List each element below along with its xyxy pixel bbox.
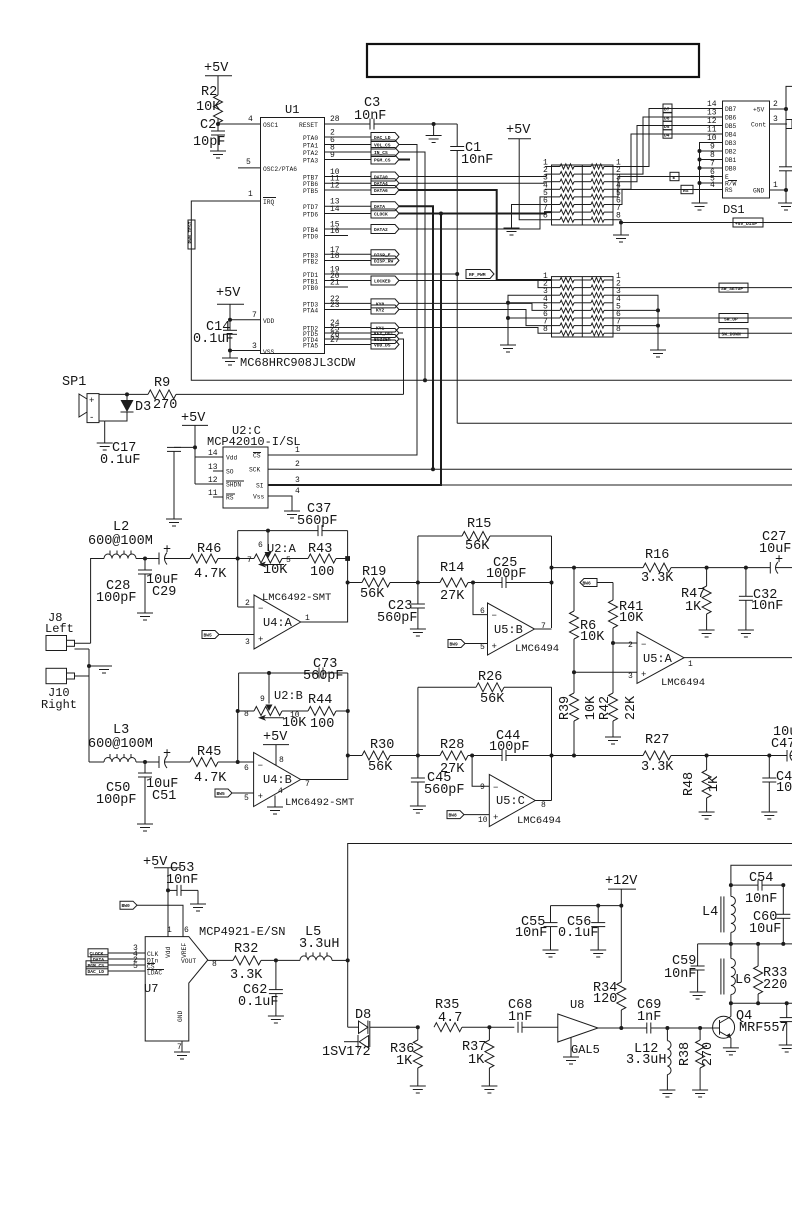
svg-text:MCP42010-I/SL: MCP42010-I/SL bbox=[207, 435, 301, 449]
flag D6 bbox=[663, 113, 672, 122]
svg-text:27K: 27K bbox=[440, 589, 465, 604]
svg-text:PTD0: PTD0 bbox=[303, 234, 318, 241]
svg-text:R9: R9 bbox=[154, 376, 170, 391]
svg-text:SI: SI bbox=[256, 483, 264, 490]
svg-text:PTA0: PTA0 bbox=[303, 135, 318, 142]
svg-text:+: + bbox=[258, 792, 263, 802]
wire mid rail bbox=[698, 943, 792, 945]
wire BUZZER down to speaker bbox=[399, 339, 404, 394]
ground resnet1 row6 bbox=[504, 205, 552, 236]
diode D3 bbox=[105, 392, 152, 421]
svg-text:7: 7 bbox=[247, 556, 252, 565]
wire to U5:C minus bbox=[472, 756, 489, 787]
wire SI pin3 bbox=[268, 484, 279, 486]
op-amp U4:B bbox=[244, 753, 354, 810]
diode D8 1SV172 varactor pair bbox=[322, 1008, 418, 1060]
wire RN1 row4 to DB4 bbox=[613, 134, 723, 189]
svg-text:6: 6 bbox=[258, 541, 263, 550]
flag VDD_DS bbox=[371, 340, 399, 349]
capacitor C29 10uF polarized bbox=[145, 543, 190, 600]
capacitor C68 1nF bbox=[508, 998, 558, 1033]
svg-text:4.7K: 4.7K bbox=[194, 771, 227, 786]
svg-text:4: 4 bbox=[248, 115, 253, 124]
wire to U5:B minus bbox=[473, 583, 488, 615]
svg-text:CLOCK: CLOCK bbox=[374, 212, 388, 218]
svg-text:+: + bbox=[258, 635, 263, 645]
node summing tap bbox=[550, 566, 554, 570]
node U5:A minus bbox=[611, 641, 615, 645]
capacitor C44 100pF bbox=[489, 729, 613, 761]
resistor R32 3.3K bbox=[208, 942, 300, 983]
node Q4 collector bbox=[729, 1001, 733, 1005]
svg-text:+5V: +5V bbox=[204, 61, 229, 76]
flag +5V_DISP bbox=[733, 218, 763, 227]
svg-text:1: 1 bbox=[688, 660, 693, 669]
svg-text:0.1uF: 0.1uF bbox=[238, 995, 279, 1010]
resistor R42 22K bbox=[598, 693, 639, 744]
flag BW6 feeding R41 bbox=[580, 579, 597, 587]
svg-text:U5:A: U5:A bbox=[643, 652, 673, 666]
resistor R16 3.3K bbox=[641, 548, 770, 586]
svg-text:560pF: 560pF bbox=[377, 611, 418, 626]
svg-text:1SV172: 1SV172 bbox=[322, 1045, 371, 1060]
svg-text:12: 12 bbox=[330, 182, 340, 191]
pin 9 PTA3 bbox=[303, 151, 371, 165]
svg-text:PTB2: PTB2 bbox=[303, 259, 318, 266]
svg-text:10K: 10K bbox=[619, 611, 644, 626]
IC U1 box bbox=[261, 118, 325, 354]
svg-text:U4:A: U4:A bbox=[263, 616, 293, 630]
svg-text:100pF: 100pF bbox=[489, 740, 530, 755]
svg-text:DB2: DB2 bbox=[725, 149, 737, 156]
power +5V resnet pullup bbox=[506, 123, 552, 220]
pin11 RS stub bbox=[213, 496, 223, 498]
wire DS1 GND pin bbox=[770, 189, 787, 191]
resistor R26 56K feedback bbox=[418, 670, 552, 801]
svg-text:RS: RS bbox=[226, 495, 234, 502]
pin 12 PTB5 bbox=[303, 182, 371, 196]
wire VDD pin 7 bbox=[228, 318, 232, 322]
svg-text:DB4: DB4 bbox=[725, 132, 737, 139]
svg-text:+5V_DISP: +5V_DISP bbox=[735, 221, 757, 227]
capacitor C54 10nF bbox=[731, 871, 785, 907]
svg-text:RS: RS bbox=[683, 188, 689, 194]
svg-text:VOUT: VOUT bbox=[181, 958, 196, 965]
svg-text:U2:A: U2:A bbox=[267, 542, 297, 556]
flag LOCKED bbox=[371, 276, 399, 285]
svg-text:R14: R14 bbox=[440, 561, 464, 576]
svg-text:PTA4: PTA4 bbox=[303, 308, 318, 315]
capacitor C32 10nF bbox=[738, 566, 784, 637]
wire RESET net to C1 bbox=[374, 123, 457, 125]
svg-text:DB7: DB7 bbox=[725, 106, 737, 113]
wire RN1 row1 to DB7 bbox=[613, 109, 723, 167]
svg-text:6: 6 bbox=[244, 764, 249, 773]
wire Vss pin4 to ground bbox=[268, 496, 300, 518]
wire SI net to edge bbox=[441, 484, 792, 486]
flag DATA4 bbox=[371, 179, 399, 188]
svg-text:Vdd: Vdd bbox=[165, 946, 172, 958]
svg-text:SCK: SCK bbox=[249, 467, 261, 474]
svg-text:C47: C47 bbox=[771, 737, 792, 752]
flag E bbox=[670, 172, 679, 181]
pin 10 PTB7 bbox=[303, 168, 371, 182]
svg-text:R45: R45 bbox=[197, 745, 221, 760]
svg-text:RS: RS bbox=[725, 187, 733, 194]
svg-text:Vdd: Vdd bbox=[226, 455, 238, 462]
wire CS pin1 bbox=[268, 454, 279, 456]
wire VSS pin 3 bbox=[228, 349, 232, 353]
wire OSC1 to U1 bbox=[218, 123, 260, 125]
capacitor C60 10uF bbox=[749, 885, 790, 944]
IC U2:C box bbox=[223, 447, 268, 508]
svg-text:+5V: +5V bbox=[181, 411, 206, 426]
node R44 output bbox=[346, 709, 350, 713]
wire IRQ net long run bbox=[191, 201, 792, 380]
node C60 bottom bbox=[781, 942, 785, 946]
flag RF_PWM bbox=[455, 270, 494, 279]
svg-text:6: 6 bbox=[480, 607, 485, 616]
flag KY0 bbox=[371, 299, 399, 308]
svg-text:GAL5: GAL5 bbox=[571, 1043, 600, 1057]
svg-text:100: 100 bbox=[310, 717, 334, 732]
pin 18 PTB2 bbox=[303, 252, 371, 266]
capacitor C23 560pF bbox=[377, 583, 426, 637]
inductor L2 600@100M bbox=[88, 520, 153, 559]
capacitor C25 100pF bbox=[486, 556, 552, 588]
node C49 top bbox=[767, 754, 771, 758]
svg-text:BW8: BW8 bbox=[449, 813, 458, 819]
wire VOL_CS to U2:C CS bbox=[279, 145, 417, 456]
resistor R46 4.7K bbox=[190, 542, 238, 582]
node C44 output bbox=[550, 754, 554, 758]
svg-text:PTA3: PTA3 bbox=[303, 158, 318, 165]
capacitor C28 100pF bbox=[96, 559, 153, 621]
svg-text:DB1: DB1 bbox=[725, 157, 737, 164]
svg-text:DATA4: DATA4 bbox=[374, 181, 388, 187]
svg-text:U7: U7 bbox=[144, 982, 158, 996]
svg-text:100pF: 100pF bbox=[96, 793, 137, 808]
capacitor C14 0.1uF bbox=[193, 320, 237, 351]
svg-text:3: 3 bbox=[773, 115, 778, 124]
svg-text:MC68HRC908JL3CDW: MC68HRC908JL3CDW bbox=[240, 356, 356, 370]
node R30 input bbox=[346, 754, 350, 758]
wire pot line vertical to minus input bbox=[237, 559, 239, 608]
flag CLOCK (U7) bbox=[88, 949, 122, 957]
node R33 top bbox=[756, 942, 760, 946]
speaker SP1 bbox=[62, 375, 127, 423]
svg-text:R48: R48 bbox=[682, 772, 697, 796]
svg-text:56K: 56K bbox=[360, 587, 385, 602]
svg-text:DB6: DB6 bbox=[725, 115, 737, 122]
svg-text:D6: D6 bbox=[664, 115, 670, 121]
wire U4:B output to R30 line bbox=[301, 673, 348, 780]
svg-text:22K: 22K bbox=[624, 695, 639, 720]
connector J8 bbox=[45, 611, 91, 651]
svg-text:56K: 56K bbox=[465, 539, 490, 554]
pin 27 PTA5 bbox=[303, 336, 371, 350]
wire PTB4 to resnet row5 bbox=[399, 197, 552, 229]
svg-text:SW_DOWN: SW_DOWN bbox=[722, 332, 742, 338]
svg-text:+5V: +5V bbox=[263, 730, 288, 745]
svg-text:2: 2 bbox=[295, 460, 300, 469]
svg-text:10pF: 10pF bbox=[193, 135, 225, 150]
power +5V (C14/VDD) bbox=[216, 286, 244, 320]
svg-text:−: − bbox=[493, 783, 498, 793]
wire KY2 to keypad row7 bbox=[399, 310, 552, 326]
power +12V bbox=[605, 874, 638, 982]
svg-text:8: 8 bbox=[279, 756, 284, 765]
capacitor C1 10nF bbox=[450, 124, 493, 423]
svg-text:10K: 10K bbox=[584, 695, 599, 720]
flag DATA bbox=[371, 202, 399, 211]
flag KY2 bbox=[371, 305, 399, 314]
svg-text:PGM_CS: PGM_CS bbox=[374, 158, 391, 164]
svg-text:DS1: DS1 bbox=[723, 203, 745, 217]
resistor R33 220 bbox=[754, 944, 788, 1005]
node R28 output bbox=[470, 754, 474, 758]
pin stubs U7 left bbox=[122, 944, 145, 971]
svg-text:9: 9 bbox=[480, 783, 485, 792]
svg-text:8: 8 bbox=[541, 801, 546, 810]
flag BW8 (U5:C +) bbox=[447, 811, 489, 819]
ground on +5V_DISP line bbox=[613, 223, 629, 243]
svg-text:GND: GND bbox=[177, 1010, 184, 1022]
wire U5:B output to node bbox=[535, 628, 552, 630]
ground J8/J10 shield bbox=[87, 649, 112, 676]
flag DISP_E bbox=[371, 250, 399, 259]
svg-text:5: 5 bbox=[480, 643, 485, 652]
svg-text:7: 7 bbox=[252, 311, 257, 320]
wire summing line bbox=[552, 567, 644, 569]
wire U4:A output up to R19 node bbox=[301, 531, 348, 622]
svg-text:BW0: BW0 bbox=[122, 903, 131, 909]
svg-text:LMC6494: LMC6494 bbox=[517, 815, 561, 827]
svg-text:4.7K: 4.7K bbox=[194, 567, 227, 582]
IC U7 MCP4921 DAC bbox=[144, 925, 285, 1052]
node C25 output bbox=[550, 581, 554, 585]
svg-text:PTA5: PTA5 bbox=[303, 343, 318, 350]
svg-text:10K: 10K bbox=[196, 100, 221, 115]
digital pot U2:B bbox=[238, 673, 308, 731]
pin 21 PTB0 bbox=[303, 279, 348, 293]
flag D7 bbox=[663, 104, 672, 113]
IC DS1 box bbox=[723, 101, 770, 198]
node L3/C50 bbox=[143, 760, 147, 764]
svg-text:D7: D7 bbox=[664, 107, 670, 113]
svg-text:10uF: 10uF bbox=[749, 922, 781, 937]
resistor R44 100 bbox=[308, 693, 348, 732]
svg-text:10: 10 bbox=[478, 816, 488, 825]
svg-text:10nF: 10nF bbox=[751, 599, 783, 614]
node R39 bottom bbox=[572, 754, 576, 758]
svg-text:1K: 1K bbox=[685, 600, 702, 615]
wire PTB1 to keypad row2 bbox=[399, 281, 552, 288]
svg-text:120: 120 bbox=[593, 992, 617, 1007]
capacitor C47 10uF polarized bbox=[770, 725, 792, 762]
svg-text:LOCKED: LOCKED bbox=[374, 279, 391, 285]
svg-text:BW6: BW6 bbox=[583, 581, 592, 587]
svg-text:L4: L4 bbox=[702, 905, 718, 920]
svg-text:E: E bbox=[673, 175, 676, 181]
resistor R48 1K bbox=[682, 754, 722, 820]
svg-text:−: − bbox=[258, 604, 263, 614]
svg-text:R16: R16 bbox=[645, 548, 669, 563]
svg-text:1K: 1K bbox=[396, 1054, 413, 1069]
svg-text:10nF: 10nF bbox=[461, 153, 493, 168]
svg-text:DATA6: DATA6 bbox=[374, 188, 388, 194]
svg-text:OSC2/PTA6: OSC2/PTA6 bbox=[263, 166, 297, 173]
svg-text:PTB0: PTB0 bbox=[303, 285, 318, 292]
resistor R36 1K bbox=[390, 1025, 426, 1093]
wire PTB5 down to keypad resnet row1 bbox=[399, 190, 552, 280]
wire DS1 +5V pin up to edge bbox=[770, 86, 792, 109]
wire DB3-DB0 + R/W grounded chain bbox=[692, 143, 723, 211]
svg-text:MRF557: MRF557 bbox=[739, 1021, 788, 1036]
node U5:A plus bbox=[572, 670, 576, 674]
svg-text:560pF: 560pF bbox=[424, 783, 465, 798]
svg-text:VSS: VSS bbox=[263, 349, 275, 356]
svg-text:R46: R46 bbox=[197, 542, 221, 557]
resistor R43 100 bbox=[308, 542, 348, 580]
capacitor C3 10nF bbox=[354, 96, 386, 130]
ground at C3 net bbox=[426, 122, 442, 143]
wire RN1 row3 to DB5 bbox=[613, 126, 723, 182]
svg-text:Cont: Cont bbox=[751, 122, 766, 129]
flag BW0 VREF bbox=[120, 901, 183, 936]
svg-text:C29: C29 bbox=[152, 585, 176, 600]
svg-text:10nF: 10nF bbox=[745, 892, 777, 907]
svg-text:−: − bbox=[492, 611, 497, 621]
svg-text:DISP_RW: DISP_RW bbox=[374, 259, 394, 265]
svg-text:PTD7: PTD7 bbox=[303, 204, 318, 211]
svg-text:270: 270 bbox=[701, 1042, 716, 1066]
wire KEY_OUT stub bbox=[399, 332, 403, 334]
svg-text:SP1: SP1 bbox=[62, 375, 86, 390]
svg-text:6: 6 bbox=[184, 926, 189, 935]
svg-text:+: + bbox=[163, 747, 171, 762]
svg-text:SHDN: SHDN bbox=[226, 482, 241, 489]
pin 19 PTD1 bbox=[303, 266, 457, 280]
svg-text:2: 2 bbox=[245, 599, 250, 608]
svg-text:Vss: Vss bbox=[253, 494, 265, 501]
capacitor C59 10nF bbox=[664, 944, 706, 999]
node R45 input bbox=[236, 760, 240, 764]
wire SW_SETUP net bbox=[613, 283, 792, 292]
flag DATA2 bbox=[371, 225, 399, 234]
svg-text:8: 8 bbox=[212, 960, 217, 969]
capacitor C56 0.1uF bbox=[558, 904, 606, 957]
svg-text:100pF: 100pF bbox=[96, 591, 137, 606]
wire top bias rail bbox=[731, 865, 792, 885]
resistor R28 27K bbox=[440, 738, 502, 777]
RN1 short left stubs rows 1,4,7 bbox=[545, 166, 552, 168]
svg-text:LMC6494: LMC6494 bbox=[661, 677, 705, 689]
flag DISP_RW bbox=[371, 256, 399, 265]
amplifier U8 GAL5 bbox=[558, 998, 622, 1064]
svg-text:5: 5 bbox=[246, 158, 251, 167]
svg-text:1: 1 bbox=[248, 190, 253, 199]
svg-text:−: − bbox=[641, 640, 646, 650]
svg-text:VREF: VREF bbox=[181, 943, 188, 958]
flag DAC_LD (U7) bbox=[86, 967, 122, 975]
svg-text:U5:C: U5:C bbox=[496, 794, 525, 808]
svg-text:R44: R44 bbox=[308, 693, 332, 708]
flag KEY_OUT bbox=[371, 329, 399, 338]
svg-text:10K: 10K bbox=[263, 563, 288, 578]
wire RN1 row5 to E bbox=[613, 177, 723, 197]
wire U5:A output to edge bbox=[684, 657, 792, 659]
svg-text:1: 1 bbox=[167, 926, 172, 935]
flag BUZZER bbox=[371, 335, 399, 344]
svg-text:U1: U1 bbox=[285, 103, 299, 117]
svg-text:+: + bbox=[163, 543, 171, 558]
wire CLOCK down to SI net bbox=[279, 214, 441, 486]
pin 8 PTA2 bbox=[303, 144, 371, 158]
op-amp U4:A bbox=[245, 592, 331, 649]
svg-text:3: 3 bbox=[628, 672, 633, 681]
svg-text:L3: L3 bbox=[113, 723, 129, 738]
svg-text:2: 2 bbox=[773, 100, 778, 109]
resistor R45 4.7K bbox=[190, 745, 254, 786]
svg-text:MCP4921-E/SN: MCP4921-E/SN bbox=[199, 925, 285, 939]
pin 28 RESET bbox=[299, 115, 370, 129]
svg-text:L2: L2 bbox=[113, 520, 129, 535]
op-amp U5:A bbox=[637, 632, 705, 689]
node R6 top bbox=[572, 566, 576, 570]
svg-text:3.3K: 3.3K bbox=[641, 760, 674, 775]
wire RN1 row6 to RS bbox=[613, 190, 723, 205]
node pot input bbox=[236, 557, 240, 561]
svg-text:C51: C51 bbox=[152, 789, 176, 804]
flag PGM_CS (U7) bbox=[86, 961, 122, 969]
pin 6 PTA1 bbox=[303, 136, 371, 150]
svg-text:D4: D4 bbox=[664, 132, 670, 138]
wire SW_DOWN net bbox=[613, 329, 792, 338]
svg-text:9: 9 bbox=[260, 695, 265, 704]
pin 22 PTD3 bbox=[303, 295, 371, 309]
flag RS bbox=[681, 185, 693, 194]
pin 24 PTD2 bbox=[303, 319, 371, 333]
pin 23 PTA4 bbox=[303, 301, 371, 315]
wire net to right edge y=423 bbox=[457, 422, 792, 424]
svg-text:220: 220 bbox=[763, 978, 787, 993]
svg-text:R39: R39 bbox=[558, 696, 573, 720]
pin 26 PTD4 bbox=[303, 331, 371, 345]
svg-text:CLOCK: CLOCK bbox=[90, 951, 104, 957]
wire PGM_CS stub bbox=[399, 159, 410, 161]
svg-text:SW_SETUP: SW_SETUP bbox=[721, 286, 743, 292]
wire IN_CS down to IRQ net bbox=[399, 152, 425, 380]
svg-text:SW_UP: SW_UP bbox=[724, 316, 738, 322]
svg-text:7: 7 bbox=[541, 622, 546, 631]
svg-text:3.3K: 3.3K bbox=[230, 968, 263, 983]
resistor R39 10K bbox=[558, 672, 599, 755]
flag KY1 bbox=[371, 323, 399, 332]
svg-text:600@100M: 600@100M bbox=[88, 534, 153, 549]
flag PWM_TEST vertical bbox=[188, 220, 196, 249]
svg-text:U4:B: U4:B bbox=[263, 773, 292, 787]
flag IN_CS bbox=[371, 148, 399, 157]
pin 20 PTB1 bbox=[303, 272, 371, 286]
svg-text:1nF: 1nF bbox=[508, 1010, 532, 1025]
svg-text:DAC_LD: DAC_LD bbox=[88, 969, 105, 975]
svg-text:D5: D5 bbox=[664, 124, 670, 130]
node +12V tap bbox=[619, 904, 623, 908]
svg-text:GND: GND bbox=[753, 188, 765, 195]
resistor R37 1K bbox=[462, 1025, 497, 1093]
resistor R14 27K bbox=[440, 561, 502, 604]
